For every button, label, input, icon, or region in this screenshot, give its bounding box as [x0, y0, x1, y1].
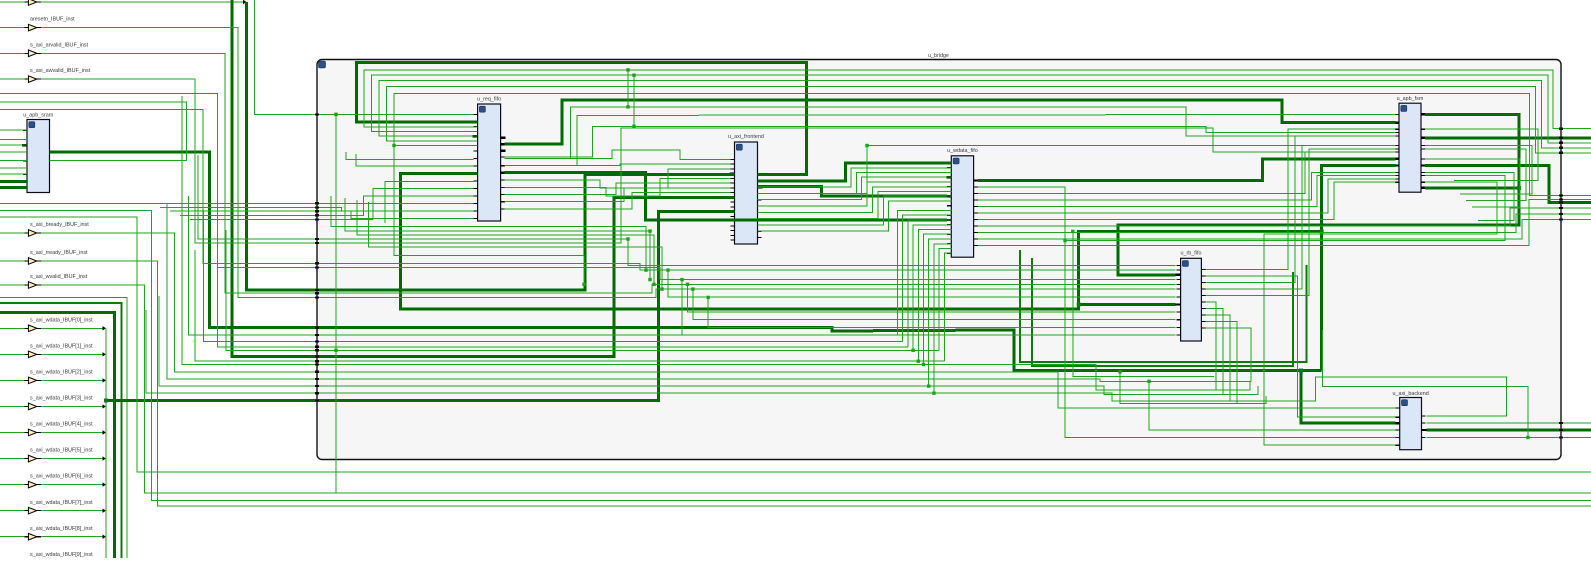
net into req: [160, 207, 473, 210]
bus req_fifo out to wdata: [505, 173, 947, 220]
svg-text:s_axi_wdata_IBUF[8]_inst: s_axi_wdata_IBUF[8]_inst: [30, 526, 93, 532]
wire sram input: [0, 138, 27, 140]
wire wdata ibuf out: [41, 327, 103, 329]
net from west to south: [0, 298, 127, 558]
bus apb_fsm out lower: [1425, 166, 1591, 203]
net wrap b: [1323, 330, 1528, 438]
net bundle to wdata: [913, 225, 951, 350]
junction: [1147, 380, 1150, 383]
wire wdata ibuf out: [41, 406, 103, 408]
junction: [652, 283, 655, 286]
junction: [707, 296, 710, 299]
svg-text:s_axi_wdata_IBUF[3]_inst: s_axi_wdata_IBUF[3]_inst: [30, 396, 93, 402]
input buffer s_axi_wdata_IBUF[2]_inst: [0, 370, 93, 384]
net frontend to wdata: [758, 168, 952, 187]
wire wdata ibuf out: [41, 562, 103, 563]
net bundle to wdata: [898, 211, 952, 335]
input buffer s_axi_bready_IBUF_inst: [0, 222, 89, 236]
svg-text:u_wdata_fifo: u_wdata_fifo: [947, 148, 978, 154]
net backend right pin a: [1427, 415, 1507, 417]
net bundle to wdata: [918, 230, 951, 362]
wire sram input: [0, 173, 27, 175]
bus backend rdata out: [1427, 429, 1591, 432]
net top nest: [364, 70, 1591, 129]
input buffer s_axi_wdata_IBUF[7]_inst: [0, 500, 93, 514]
svg-text:s_axi_wdata_IBUF[1]_inst: s_axi_wdata_IBUF[1]_inst: [30, 343, 93, 349]
net rb drop: [1206, 328, 1251, 381]
net under bridge 1: [0, 211, 1591, 501]
net frontend out long: [758, 146, 1396, 194]
net wdata to apb_fsm: [978, 172, 1396, 200]
net rb to apb_fsm: [1206, 129, 1396, 269]
input buffer s_axi_wdata_IBUF[8]_inst: [0, 526, 93, 540]
input buffer s_axi_wvalid_IBUF_inst: [0, 274, 88, 288]
net bready to backend: [41, 233, 1396, 408]
bus req_fifo to apb_fsm: [505, 100, 1396, 144]
net bundle row 6: [182, 96, 1250, 390]
net rb drop: [1206, 309, 1223, 395]
net boundary pins: [315, 113, 319, 115]
wire wdata collector: [105, 328, 107, 558]
net req to frontend e: [505, 183, 731, 194]
wire sram input: [0, 160, 27, 162]
svg-text:s_axi_bready_IBUF_inst: s_axi_bready_IBUF_inst: [30, 222, 89, 228]
pin arrow: [243, 0, 247, 4]
net req to frontend c: [505, 169, 731, 188]
net fsm to backend a: [1065, 175, 1505, 437]
net into req: [356, 154, 473, 166]
svg-text:u_apb_fsm: u_apb_fsm: [1397, 96, 1424, 102]
junction: [648, 278, 651, 281]
junction: [680, 278, 683, 281]
net from north: [255, 0, 337, 114]
input buffer s_axi_wdata_IBUF[6]_inst: [0, 474, 93, 488]
input buffer s_axi_wdata_IBUF[1]_inst: [0, 343, 93, 357]
bus branch apb_fsm: [1425, 186, 1519, 189]
net req to frontend g: [505, 193, 731, 209]
junction: [666, 268, 669, 271]
svg-text:u_req_fifo: u_req_fifo: [477, 96, 501, 102]
net bundle to wdata: [924, 234, 952, 364]
net wdata to apb_fsm: [978, 182, 1396, 219]
input buffer s_axi_awvalid_IBUF_inst: [0, 68, 91, 82]
pin arrow: [103, 508, 107, 512]
svg-text:u_apb_sram: u_apb_sram: [23, 113, 53, 119]
junction: [392, 144, 395, 147]
net wdata to apb_fsm: [978, 175, 1396, 206]
net sram out a to rb: [198, 155, 1176, 265]
bus east mid a: [1020, 250, 1307, 362]
net wdata out east 2: [978, 200, 1591, 246]
net backend out east: [1427, 422, 1591, 424]
bus wdata_fifo to apb_fsm: [978, 159, 1396, 181]
pin arrow: [103, 404, 107, 408]
net frontend to wdata: [758, 173, 952, 194]
net drop to under-bridge: [335, 114, 337, 493]
net frontend to wdata: [758, 201, 952, 231]
net req to frontend d: [505, 178, 731, 196]
input buffer s_axi_wdata_IBUF[9]_inst: [0, 552, 93, 563]
net top nest: [371, 75, 1591, 143]
bus frontend to wdata lower: [758, 187, 947, 197]
junction: [334, 113, 338, 117]
pin arrow: [103, 430, 107, 434]
wire sram input: [0, 129, 27, 131]
svg-text:aresetn_IBUF_inst: aresetn_IBUF_inst: [30, 17, 75, 23]
net top nest: [394, 94, 1591, 196]
svg-text:s_axi_wdata_IBUF[4]_inst: s_axi_wdata_IBUF[4]_inst: [30, 422, 93, 428]
net to sram: [0, 102, 187, 160]
junction: [1320, 229, 1324, 233]
bus into frontend pin: [585, 175, 735, 177]
net fsm east c: [1425, 149, 1526, 201]
wire wdata ibuf out: [41, 432, 103, 434]
net into req: [346, 152, 473, 160]
net rb drop: [1206, 322, 1237, 404]
svg-text:s_axi_wdata_IBUF[5]_inst: s_axi_wdata_IBUF[5]_inst: [30, 448, 93, 454]
junction: [927, 384, 930, 387]
svg-text:s_axi_wdata_IBUF[9]_inst: s_axi_wdata_IBUF[9]_inst: [30, 552, 93, 558]
net wdata out east: [978, 208, 1591, 226]
wire wdata ibuf out: [41, 458, 103, 460]
net bundle to wdata: [939, 249, 951, 351]
net bundle to wdata: [944, 253, 951, 361]
junction: [632, 125, 635, 128]
net req out long b: [505, 114, 1396, 165]
net rb to apb_fsm: [1206, 136, 1396, 283]
module instance u_apb_sram: [22, 113, 55, 193]
wire wdata ibuf out: [41, 510, 103, 512]
net frontend to wdata: [758, 187, 952, 213]
net from west 1: [0, 94, 1176, 280]
input buffer s_axi_arvalid_IBUF_inst: [0, 42, 89, 56]
net frontend to wdata: [758, 182, 952, 206]
net inner row a: [331, 196, 646, 270]
svg-text:s_axi_wdata_IBUF[6]_inst: s_axi_wdata_IBUF[6]_inst: [30, 474, 93, 480]
net rb to apb_fsm: [1206, 146, 1396, 290]
junction: [911, 349, 914, 352]
pin arrow: [103, 561, 107, 563]
bus from west lower: [0, 313, 115, 559]
bus frontend to wdata_fifo: [758, 163, 952, 181]
net drop to rb: [693, 289, 1176, 320]
u_bridge hierarchy marker: [319, 61, 326, 68]
junction: [626, 105, 629, 108]
junction: [686, 283, 689, 286]
net frontend to wdata: [758, 177, 952, 200]
net fsm east a: [1425, 129, 1538, 180]
junction: [1071, 230, 1074, 233]
input buffer s_axi_wdata_IBUF[4]_inst: [0, 422, 93, 436]
junction: [922, 363, 925, 366]
module instance u_wdata_fifo: [946, 148, 978, 257]
junction: [648, 229, 651, 232]
net wdata down: [978, 187, 1065, 241]
net bundle row 7: [159, 296, 1258, 394]
junction: [632, 74, 635, 77]
pin arrow: [103, 378, 107, 382]
net bundle to wdata: [929, 239, 952, 386]
junction: [1526, 436, 1529, 439]
svg-text:s_axi_wdata_IBUF[0]_inst: s_axi_wdata_IBUF[0]_inst: [30, 317, 93, 323]
input buffer s_axi_wdata_IBUF[3]_inst: [0, 396, 93, 410]
bus wdata to frontend: [106, 212, 735, 401]
bus frontend to req_fifo: [357, 63, 807, 175]
bus req_fifo - apb_fsm: [401, 166, 1396, 310]
net wvalid under bridge: [41, 285, 1591, 493]
net to req pin 114: [336, 113, 473, 115]
bus branch to backend: [1301, 371, 1395, 424]
wire wdata ibuf out: [41, 379, 103, 381]
net from west 2: [0, 109, 1176, 270]
input buffer s_axi_wdata_IBUF[5]_inst: [0, 448, 93, 462]
junction: [104, 399, 108, 403]
input buffer: [0, 0, 41, 5]
net riser nest: [1073, 231, 1214, 376]
module instance u_rb_fifo: [1176, 251, 1206, 342]
wire top ibuf out: [41, 1, 243, 3]
bus apb_fsm to rb_fifo: [1118, 114, 1519, 274]
bus apb_fsm out east: [1425, 136, 1591, 139]
net bundle to wdata: [934, 244, 951, 393]
net into req: [180, 196, 473, 216]
svg-text:u_rb_fifo: u_rb_fifo: [1181, 251, 1202, 257]
svg-text:s_axi_wdata_IBUF[7]_inst: s_axi_wdata_IBUF[7]_inst: [30, 500, 93, 506]
svg-text:s_axi_wvalid_IBUF_inst: s_axi_wvalid_IBUF_inst: [30, 274, 88, 280]
net req to frontend a: [505, 150, 731, 159]
bus sram addr input: [0, 180, 27, 183]
net rb to apb_fsm: [1206, 149, 1396, 296]
junction: [1063, 239, 1066, 242]
net fanout drop b: [633, 75, 635, 126]
input buffer s_axi_rready_IBUF_inst: [0, 250, 88, 264]
junction: [1077, 303, 1081, 307]
bus east mid b: [1032, 258, 1293, 366]
wire sram input: [0, 151, 27, 153]
bus from west upper: [0, 303, 122, 558]
net rb drop: [1206, 315, 1230, 401]
net awvalid long: [41, 79, 1396, 243]
svg-text:s_axi_arvalid_IBUF_inst: s_axi_arvalid_IBUF_inst: [30, 42, 89, 48]
net bundle to wdata: [908, 220, 951, 347]
pin arrow: [103, 352, 107, 356]
net aresetn to rb: [41, 28, 1176, 298]
net bundle row 4: [226, 230, 939, 350]
net to backend in 2: [1149, 381, 1395, 430]
net wdata to apb_fsm: [978, 152, 1396, 194]
junction: [1517, 186, 1521, 190]
net drop to rb: [668, 270, 1176, 297]
net req to frontend f: [505, 188, 731, 202]
net frontend to wdata: [758, 196, 952, 225]
junction: [917, 360, 920, 363]
module instance u_axi_backend: [1392, 391, 1428, 450]
svg-text:u_bridge: u_bridge: [928, 53, 949, 59]
pin arrow: [103, 326, 107, 330]
net into req: [0, 202, 473, 204]
net top nest: [379, 81, 1591, 148]
net bundle row 2: [203, 210, 902, 342]
junction: [660, 287, 663, 290]
svg-text:s_axi_rready_IBUF_inst: s_axi_rready_IBUF_inst: [30, 250, 88, 256]
net drop to rb: [688, 284, 1176, 312]
pin arrow: [103, 456, 107, 460]
module instance u_apb_fsm: [1394, 96, 1426, 192]
net bundle row 1: [188, 196, 897, 335]
net arvalid to rb: [41, 53, 1176, 293]
hierarchy container u_bridge: [317, 60, 1561, 460]
module instance u_axi_frontend: [728, 134, 764, 244]
junction: [932, 392, 935, 395]
net fsm to backend b: [1264, 182, 1497, 445]
pin arrow: [103, 482, 107, 486]
bus sram clock trunk: [50, 152, 1322, 371]
net drop to rb: [708, 297, 1175, 327]
bus trunk vertical: [1320, 231, 1323, 370]
net inner row d: [369, 202, 663, 289]
net bundle row 3: [218, 222, 908, 347]
junction: [582, 283, 585, 286]
net nest row 4: [1120, 372, 1266, 404]
net fsm east b: [1425, 146, 1532, 195]
svg-text:u_axi_backend: u_axi_backend: [1392, 391, 1428, 397]
net inner row c: [357, 200, 654, 284]
net under bridge 2: [0, 217, 1591, 472]
module instance u_req_fifo: [473, 96, 506, 221]
junction: [1118, 370, 1121, 373]
net req out long c: [505, 126, 1396, 157]
net bundle row 8 wrap to backend: [146, 310, 1507, 416]
bus via lower trunk to frontend: [232, 0, 735, 356]
net bundle row 5: [195, 250, 944, 361]
wire sram input: [0, 167, 27, 169]
net req to frontend b: [505, 164, 731, 166]
bus top port to frontend: [247, 2, 586, 290]
input buffer s_axi_wdata_IBUF[0]_inst: [0, 317, 93, 331]
net req out long a: [505, 107, 1396, 158]
wire sram input: [0, 144, 27, 146]
net wdata out east: [978, 214, 1591, 233]
net backend out east 2: [1427, 437, 1591, 439]
net into req: [190, 189, 473, 220]
net rb to backend a: [1206, 276, 1396, 417]
net wdata to apb_fsm: [978, 179, 1396, 213]
net into req: [385, 181, 473, 223]
junction: [626, 237, 629, 240]
input buffer aresetn_IBUF_inst: [0, 17, 75, 31]
wire wdata ibuf out: [41, 536, 103, 538]
net wdata out east: [978, 220, 1591, 239]
junction: [1299, 369, 1303, 373]
net fsm east d: [1425, 159, 1520, 207]
bus branch to rb_fifo: [1079, 303, 1176, 306]
net into req: [170, 211, 473, 218]
svg-text:u_axi_frontend: u_axi_frontend: [728, 134, 764, 140]
net bundle to wdata: [903, 215, 952, 341]
wire wdata ibuf out: [41, 353, 103, 355]
net drop to rb: [682, 280, 1176, 335]
svg-text:s_axi_awvalid_IBUF_inst: s_axi_awvalid_IBUF_inst: [30, 68, 91, 74]
net fanout drop a: [627, 70, 629, 107]
junction: [865, 144, 868, 147]
net rb drop: [1206, 302, 1216, 390]
net nest branch down: [394, 146, 584, 285]
svg-text:s_axi_wdata_IBUF[2]_inst: s_axi_wdata_IBUF[2]_inst: [30, 370, 93, 376]
net top nest: [387, 86, 1591, 153]
junction: [626, 68, 629, 71]
net inner row b: [345, 198, 650, 280]
junction: [691, 287, 694, 290]
junction: [644, 268, 647, 271]
pin arrow: [103, 535, 107, 539]
net frontend to wdata: [758, 192, 952, 219]
net fsm east e: [1425, 172, 1514, 220]
bus sram data input: [0, 186, 27, 189]
net rready under bridge: [41, 261, 1591, 506]
wire wdata ibuf out: [41, 484, 103, 486]
junction: [334, 349, 337, 352]
net from west 3: [0, 204, 1251, 382]
